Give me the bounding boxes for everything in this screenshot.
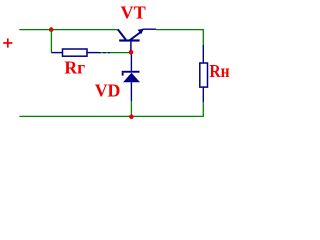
svg-text:VD: VD: [95, 81, 121, 101]
plus terminal +: [3, 38, 12, 47]
wire top-right green with corner down: [156, 30, 203, 45]
resistor Rn: [200, 63, 208, 87]
wire navy above Rn: [202, 45, 204, 63]
zener diode VD: [122, 71, 140, 82]
wire emitter navy segment: [143, 28, 157, 30]
wire top-left horizontal: [19, 29, 118, 31]
wire navy below Rn: [202, 87, 204, 102]
node A (junction top of Rg branch): [49, 27, 54, 32]
node B (base node junction): [129, 50, 134, 55]
wire navy below zener: [130, 82, 132, 101]
wire green to base node: [99, 52, 131, 54]
wire green right branch down to corner: [19, 102, 203, 116]
svg-text:VT: VT: [121, 2, 146, 22]
wire navy base node down to zener: [130, 55, 132, 71]
wire dashed transition: [99, 52, 111, 54]
wire vertical down from node A: [50, 30, 52, 53]
node C (bottom junction): [129, 115, 134, 120]
wire lead out of resistor Rg: [87, 52, 99, 54]
wire green down to bottom node: [130, 101, 132, 116]
svg-text:Rн: Rн: [209, 61, 229, 81]
wire lead into resistor Rg: [51, 52, 62, 54]
transistor VT: [118, 29, 144, 51]
svg-text:Rг: Rг: [64, 57, 85, 77]
resistor Rg: [63, 49, 88, 56]
